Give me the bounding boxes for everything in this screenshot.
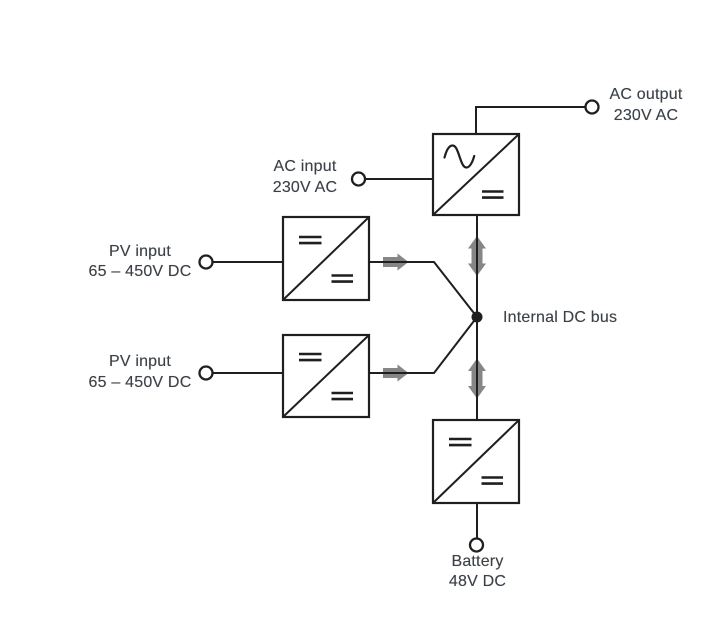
terminal battery bbox=[470, 539, 483, 552]
wire PV1 input (terminal to converter) bbox=[212, 261, 283, 263]
wire DC bus (inverter bottom to battery converter top) bbox=[476, 215, 478, 420]
DC symbol (input side of U2) bbox=[299, 237, 322, 243]
terminal AC output bbox=[586, 101, 599, 114]
terminal PV input 1 bbox=[200, 256, 213, 269]
arrow PV2 flow (gray right arrow) bbox=[383, 365, 409, 382]
label Internal DC bus bbox=[503, 308, 617, 329]
arrow PV1 flow (gray right arrow) bbox=[383, 254, 409, 271]
terminal AC input bbox=[352, 173, 365, 186]
DC symbol (input side of U4) bbox=[449, 439, 472, 445]
label PV input 1 bbox=[89, 242, 192, 283]
wire PV1 output to DC bus node bbox=[369, 262, 477, 317]
wire battery (converter bottom to terminal) bbox=[476, 503, 478, 538]
DC symbol (output side of U4) bbox=[482, 478, 504, 484]
wire AC input (terminal to inverter left) bbox=[365, 178, 433, 180]
converter U2 (PV DC/DC block 1) bbox=[283, 217, 369, 300]
label PV input 2 bbox=[89, 352, 192, 393]
sine symbol (AC side of U1) bbox=[445, 146, 475, 168]
label AC output 230V AC bbox=[610, 85, 683, 126]
DC symbol (output side of U3) bbox=[332, 393, 354, 399]
arrow bidirectional flow lower (gray up-down arrow) bbox=[468, 359, 486, 399]
converter U4 (battery DC/DC block) bbox=[433, 420, 519, 503]
node Internal DC bus junction bbox=[472, 312, 483, 323]
wire PV2 output to DC bus node bbox=[369, 317, 477, 373]
DC symbol (output side of U2) bbox=[332, 276, 354, 282]
arrow bidirectional flow upper (gray up-down arrow) bbox=[468, 236, 486, 276]
DC symbol (DC side of U1) bbox=[482, 192, 504, 198]
label Battery 48V DC bbox=[449, 552, 506, 593]
DC symbol (input side of U3) bbox=[299, 354, 322, 360]
label AC input 230V AC bbox=[273, 157, 338, 198]
converter U3 (PV DC/DC block 2) bbox=[283, 335, 369, 417]
terminal PV input 2 bbox=[200, 367, 213, 380]
inverter U1 (AC/DC converter block) bbox=[433, 134, 519, 215]
wire PV2 input (terminal to converter) bbox=[212, 372, 283, 374]
wire AC output (inverter top to terminal) bbox=[476, 107, 586, 134]
